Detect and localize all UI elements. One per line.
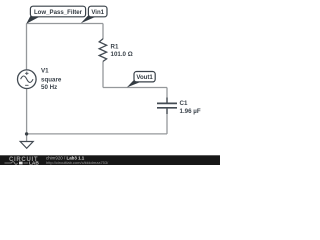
svg-text:50 Hz: 50 Hz [41, 84, 57, 91]
svg-text:Vin1: Vin1 [91, 9, 104, 16]
svg-text:Low_Pass_Filter: Low_Pass_Filter [34, 9, 83, 16]
svg-text:101.0 Ω: 101.0 Ω [111, 51, 133, 58]
svg-text:square: square [41, 77, 62, 84]
wire capacitor bottom lead [166, 108, 168, 134]
wire left vertical to V1 top [26, 24, 28, 71]
wire resistor bottom to corner [102, 61, 104, 87]
label C1 value [180, 100, 201, 115]
voltage source V1 [18, 70, 37, 89]
svg-text:C1: C1 [180, 100, 188, 107]
wire top horizontal Vin net [27, 23, 104, 25]
svg-text:http://circuitlab.com/c/kkkdmz: http://circuitlab.com/c/kkkdmza753/ [46, 160, 109, 165]
svg-text:V1: V1 [41, 68, 49, 75]
wire capacitor top lead [166, 88, 168, 104]
wire Vout horizontal [103, 87, 167, 89]
flag Vin1 [81, 6, 107, 23]
capacitor C1 [157, 98, 177, 115]
svg-text:LAB: LAB [29, 161, 39, 165]
label V1 value [41, 68, 62, 91]
wire resistor top [102, 24, 104, 40]
flag Vout1 [127, 72, 155, 88]
resistor R1 [99, 39, 106, 62]
svg-text:R1: R1 [111, 44, 119, 51]
svg-text:Vout1: Vout1 [136, 74, 153, 81]
node junction dot [25, 132, 28, 135]
CircuitLab logo [5, 157, 40, 166]
wire V1 bottom to ground [26, 88, 28, 141]
wire bottom horizontal [27, 133, 167, 135]
label R1 value [111, 44, 133, 58]
ground [20, 142, 33, 149]
svg-text:1.96 µF: 1.96 µF [180, 108, 201, 115]
flag Low_Pass_Filter [26, 6, 85, 24]
footer bar [0, 155, 220, 165]
